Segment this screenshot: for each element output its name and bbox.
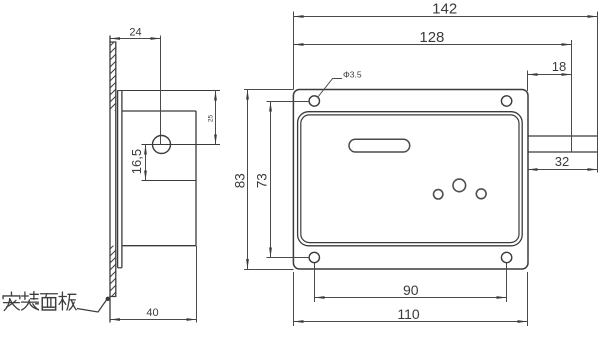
dimension 40 bbox=[110, 319, 197, 321]
dimension 16,5 bbox=[145, 145, 147, 181]
svg-text:18: 18 bbox=[552, 59, 566, 74]
dimension 90 bbox=[315, 297, 507, 299]
dim 110 left extension bbox=[293, 272, 295, 326]
dim 18 left extension bbox=[527, 71, 529, 92]
svg-text:73: 73 bbox=[255, 173, 270, 188]
latch bottom edge bbox=[528, 151, 598, 153]
dimension 32 bbox=[528, 169, 598, 171]
LED middle bbox=[453, 179, 466, 192]
card slot on cover bbox=[349, 139, 410, 152]
screw hole top-left bbox=[309, 96, 319, 106]
dim 110 right extension bbox=[527, 272, 529, 326]
dimension 83 bbox=[247, 90, 249, 270]
dim 128 right extension bbox=[571, 40, 573, 152]
面 bbox=[41, 294, 58, 310]
dim 73 bottom extension bbox=[267, 257, 310, 259]
cover inner outline bbox=[301, 115, 519, 243]
leader dot bbox=[106, 297, 110, 301]
leader line from label to panel bbox=[77, 299, 108, 313]
svg-text:24: 24 bbox=[129, 27, 141, 39]
svg-text:142: 142 bbox=[432, 1, 457, 18]
device mounting flange plate (side view) bbox=[117, 90, 119, 267]
svg-text:40: 40 bbox=[146, 307, 158, 319]
板 bbox=[59, 292, 76, 310]
back box top edge bbox=[122, 110, 196, 112]
hole leader line bbox=[318, 79, 343, 98]
screw hole bottom-left bbox=[309, 252, 319, 262]
dimension 128 bbox=[294, 44, 572, 46]
dimension 40 extension right bbox=[196, 246, 198, 323]
svg-text:16,5: 16,5 bbox=[129, 149, 144, 174]
device top edge (extends right as extension line for dim 25) bbox=[118, 90, 220, 92]
panel section hatch upper segment bbox=[104, 34, 122, 122]
mounting panel bottom edge bbox=[109, 296, 116, 298]
panel section hatch lower segment bbox=[104, 237, 122, 304]
box feature line at 16.5 below hole bbox=[142, 180, 197, 182]
LED right bbox=[476, 189, 486, 199]
svg-text:25: 25 bbox=[208, 115, 215, 123]
cylinder hole circle bbox=[153, 136, 171, 154]
dim 142 right extension bbox=[597, 12, 599, 173]
dim 142 left extension bbox=[293, 12, 295, 90]
mounting panel left face line (with dim extensions) bbox=[109, 36, 111, 323]
svg-text:32: 32 bbox=[555, 154, 569, 169]
dimension 73 bbox=[270, 102, 272, 258]
screw hole bottom-right bbox=[501, 252, 511, 262]
svg-text:83: 83 bbox=[233, 173, 248, 188]
安 bbox=[3, 292, 20, 310]
screw hole top-right bbox=[501, 96, 511, 106]
latch top edge bbox=[528, 135, 598, 137]
flange plate bottom cap bbox=[118, 267, 122, 269]
svg-text:90: 90 bbox=[403, 282, 419, 298]
装 bbox=[22, 292, 39, 310]
dim 83 bottom extension bbox=[244, 269, 294, 271]
svg-text:Φ3.5: Φ3.5 bbox=[343, 70, 362, 80]
dim 90 right extension bbox=[506, 263, 508, 302]
label 安装面板 (hand-drawn strokes) bbox=[3, 292, 76, 311]
back box right edge bbox=[195, 111, 197, 246]
hole vertical center line (extension of dim 24) bbox=[160, 36, 162, 145]
LED left bbox=[434, 190, 443, 199]
dimension 142 bbox=[294, 16, 598, 18]
dimension 110 bbox=[294, 321, 528, 323]
dimension 18 bbox=[528, 74, 572, 76]
dim 83 top extension bbox=[244, 89, 294, 91]
svg-text:128: 128 bbox=[419, 29, 444, 46]
back box bottom edge bbox=[122, 245, 196, 247]
svg-text:110: 110 bbox=[397, 306, 420, 322]
hole horizontal center line bbox=[142, 144, 221, 146]
dim 90 left extension bbox=[314, 263, 316, 302]
dimension 24 bbox=[110, 38, 161, 40]
dimension 25 bbox=[215, 91, 217, 145]
dim 73 top extension bbox=[267, 101, 310, 103]
flange outline bbox=[293, 90, 528, 270]
cover outer outline bbox=[298, 112, 523, 246]
mounting panel top edge bbox=[109, 41, 116, 43]
mounting panel right face line bbox=[115, 42, 117, 297]
